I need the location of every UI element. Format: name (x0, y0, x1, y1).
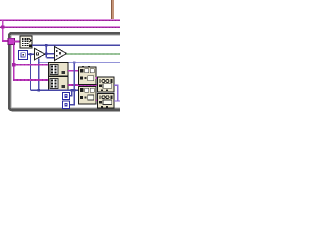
wire magenta U3 out to U6 (68, 84, 98, 86)
subVI U5 (78, 86, 96, 103)
node junction blue (46,54) (45, 53, 47, 55)
wire blue vertical x46 (45, 45, 47, 57)
tunnel (magenta) on loop border (8, 38, 14, 44)
function icon U2 (cluster grid) (48, 63, 68, 77)
function icon U1 (array/matrix) (20, 36, 32, 48)
wire lavender vertical x70 (73, 63, 75, 91)
wire magenta vertical inside loop (13, 45, 15, 81)
comparison T1 (triangle) (35, 48, 45, 59)
numeric constant K1 (blue box) (19, 51, 28, 60)
wire blue T1 out to T2 (45, 53, 54, 55)
wire magenta U4 out stub to U6 (96, 77, 98, 79)
wire blue elbow to T2 lower input (46, 57, 54, 59)
wire purple U7 out to right edge (114, 100, 120, 102)
scale VI U6 (97, 77, 114, 92)
wire lavender row y62 to right edge (39, 62, 120, 64)
wire brown vertical (stacked cluster wire, top right) (111, 0, 114, 19)
wire green boolean to right edge (67, 53, 120, 55)
wire cluster bus 1 (horizontal magenta, full width) (0, 19, 120, 21)
wire blue K2 riser (70, 90, 72, 96)
wire magenta tunnel to Index Array (14, 41, 20, 43)
scale VI U7 (97, 93, 114, 108)
node junction blue (30,54) (29, 53, 31, 55)
wire magenta row y80 into U3 (13, 79, 49, 81)
wire blue K1 to T1 (28, 53, 35, 55)
numeric constant K3 (blue box) (62, 101, 69, 108)
wire cluster bus 2 (horizontal magenta, full width) (0, 26, 120, 28)
wire magenta U5 out stub to U7 (96, 99, 98, 101)
node junction blue (46,45) (45, 44, 47, 46)
node junctions on y91 (37, 89, 40, 92)
wire purple U6 out elbow down (114, 85, 117, 101)
node junction left bus (1, 25, 4, 28)
wire blue vertical x38 (38, 59, 40, 91)
wire magenta U2 out to U4 (68, 70, 79, 72)
function icon U3 (cluster grid) (48, 77, 68, 91)
wire magenta row y65 into U2 (13, 64, 49, 66)
wire blue row y45 to right edge (32, 44, 120, 46)
wire blue vertical x30 down (30, 54, 32, 90)
node junction magenta (13,65) (12, 63, 16, 67)
gate T2 (triangle) (54, 46, 66, 60)
wire blue row y91 into U5 (31, 89, 79, 91)
wire blue K3 riser (70, 90, 74, 104)
while loop border (9, 33, 120, 110)
numeric constant K2 (blue box) (62, 92, 69, 99)
subVI U4 (78, 66, 96, 85)
wire magenta vertical left (2, 20, 8, 42)
